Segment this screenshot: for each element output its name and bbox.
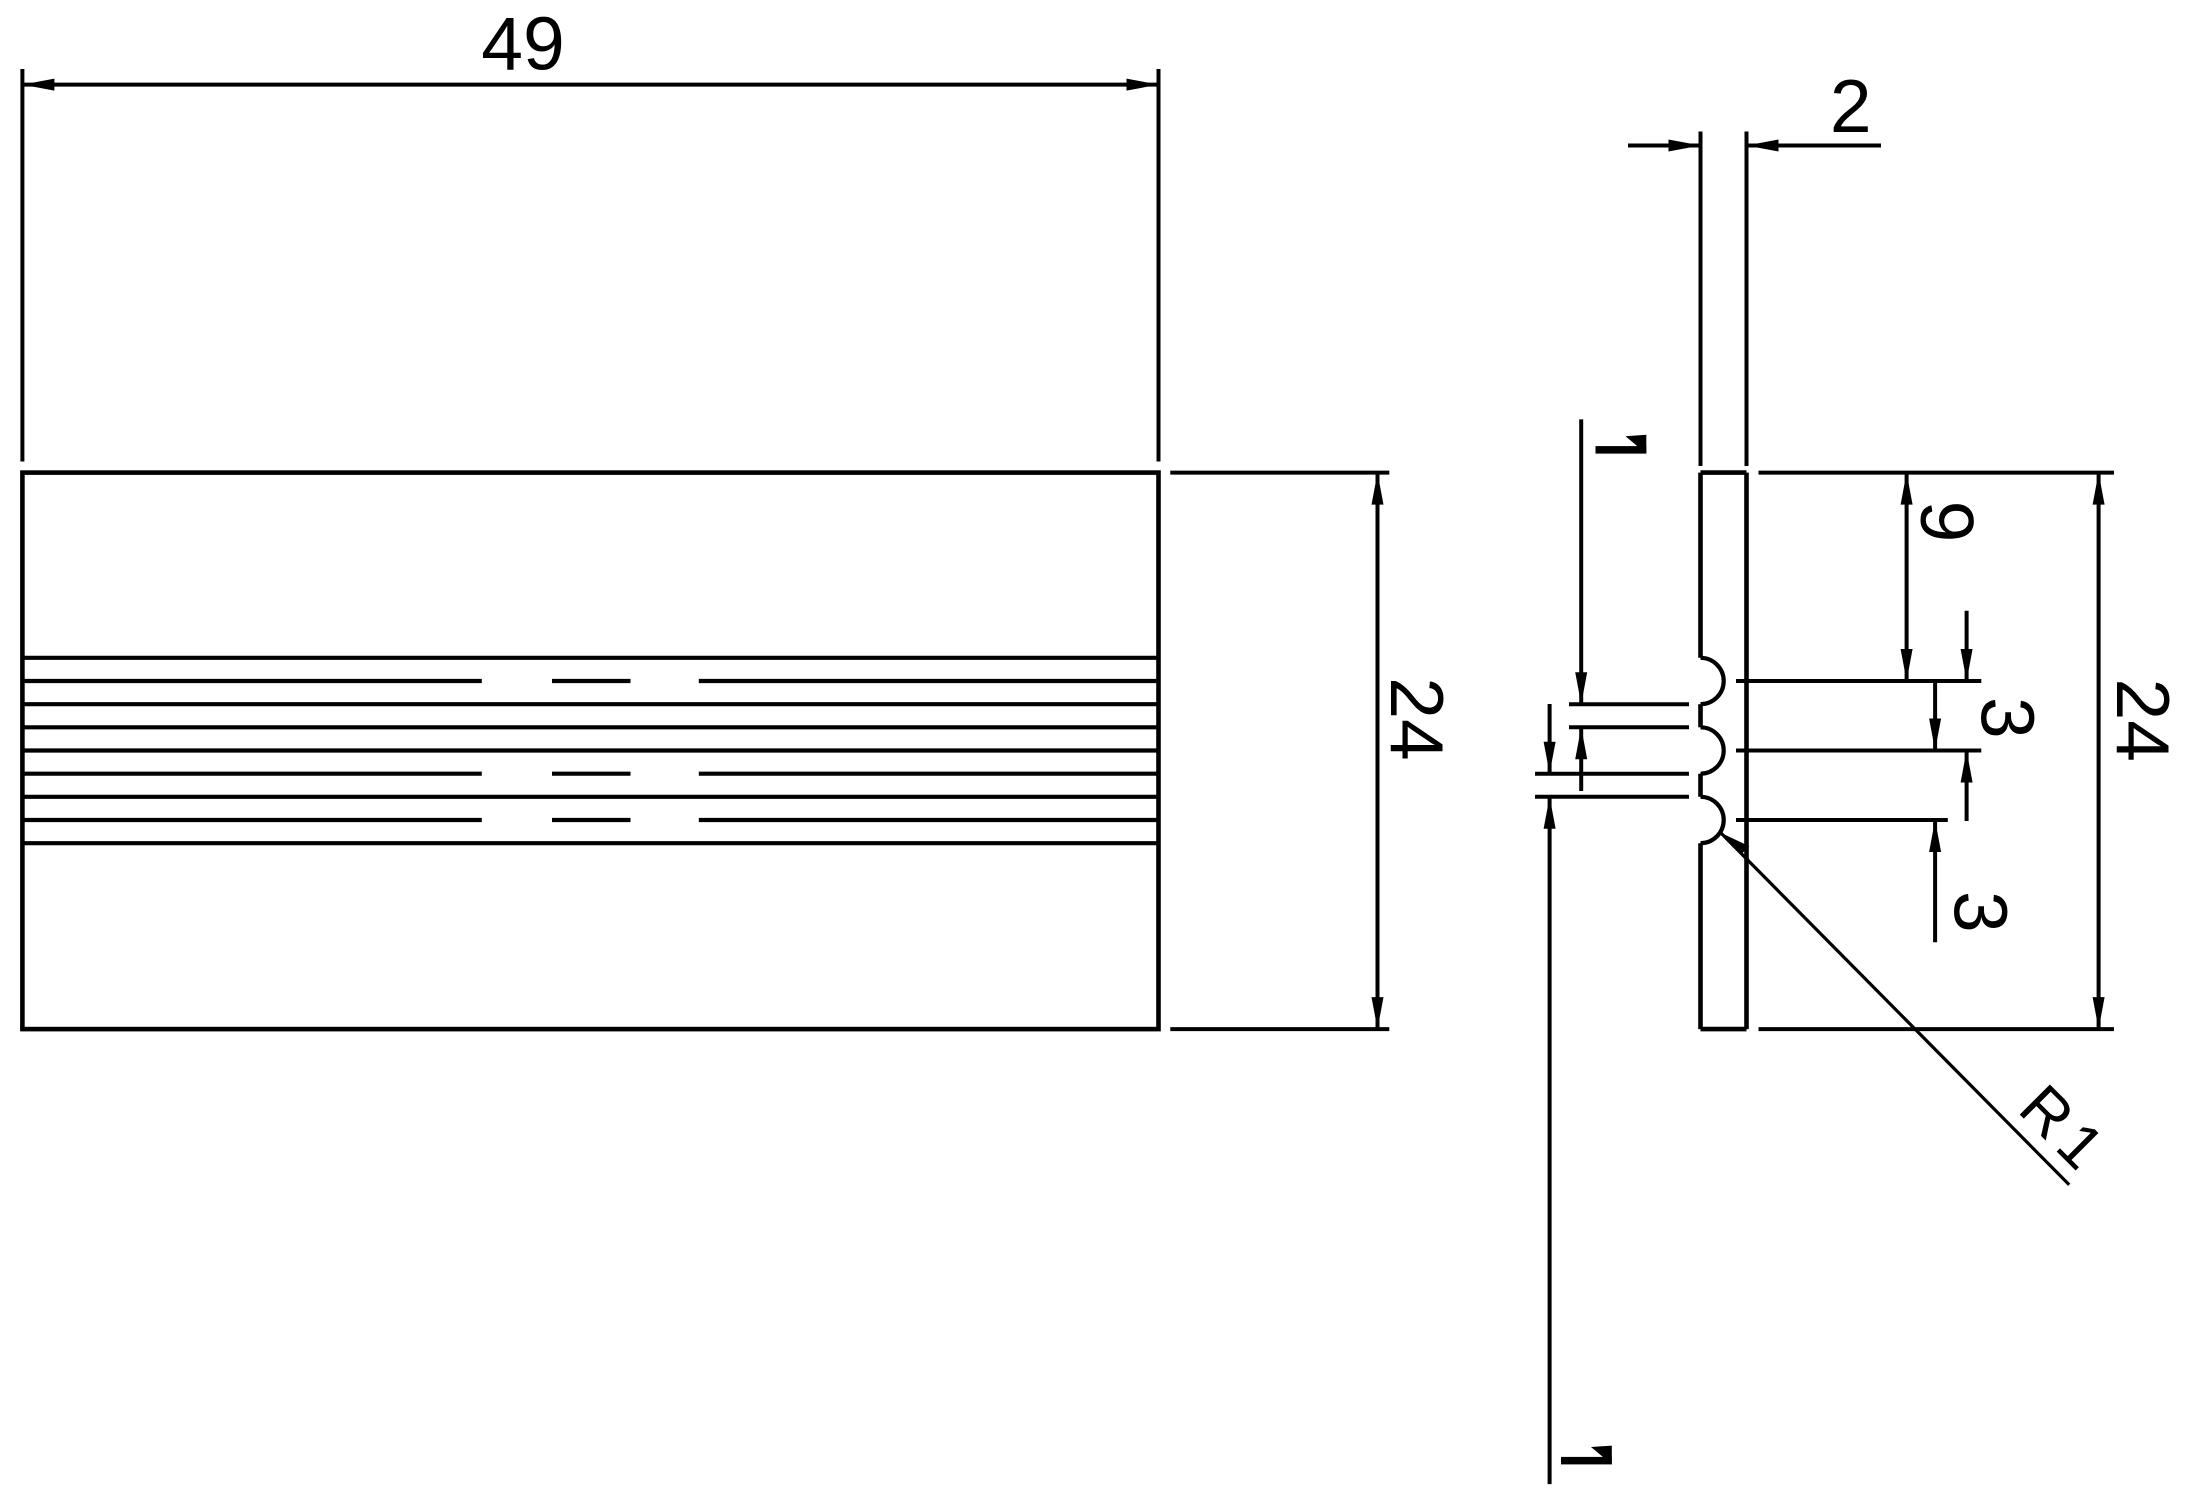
side view left edge segments <box>1698 473 1703 1030</box>
dimension 49: right arrowhead <box>1127 79 1159 91</box>
groove 1 center line (dashed) <box>22 679 1158 683</box>
dimension 3 (lower): outside arrow below <box>1929 820 1941 942</box>
dimension 1 (upper): outside arrow below <box>1575 727 1587 791</box>
groove 2 bottom edge line (dashed) <box>22 772 1158 776</box>
radius leader R1: leader line <box>1721 833 2070 1185</box>
dimension 1 (lower): value label <box>1561 1446 1612 1465</box>
groove 3 bottom edge line <box>22 841 1158 845</box>
dimension 2: dimension line tails <box>1628 144 1881 148</box>
side view outline (2 x 24 plate) <box>1701 473 1747 1030</box>
notch 1 semicircular groove R1 <box>1701 658 1724 704</box>
dimension 3 (upper): value label <box>1966 697 2050 739</box>
groove 3 center line (dashed) <box>22 818 1158 822</box>
groove 2 top edge line <box>22 725 1158 729</box>
dimension 9: bottom arrowhead <box>1901 649 1913 681</box>
notch 2 semicircular groove R1 <box>1701 727 1724 773</box>
dimension 1 (upper): outside arrow above <box>1575 419 1587 704</box>
dimension 24 (side view): top arrowhead <box>2093 473 2105 505</box>
dimension 24 (front view): dimension line <box>1376 473 1380 1030</box>
svg-text:49: 49 <box>481 2 564 86</box>
radius leader R1: value label <box>2006 1072 2122 1188</box>
dimension 1 (upper): value label <box>1596 435 1647 454</box>
dimension 2: right arrowhead <box>1747 140 1779 152</box>
dimension 1 (upper): extension lines <box>1569 704 1689 727</box>
notch center extension line 2 <box>1736 749 1981 753</box>
dimension 24 (front view): bottom arrowhead <box>1372 997 1384 1029</box>
dimension 24 (front view): top arrowhead <box>1372 473 1384 505</box>
svg-text:24: 24 <box>1375 677 1459 760</box>
svg-text:3: 3 <box>1939 891 2023 933</box>
dimension 1 (lower): outside arrow below <box>1544 797 1556 1484</box>
dimension 1 (lower): extension lines <box>1535 774 1689 797</box>
dimension 3 (upper): outside arrow below <box>1961 751 1973 822</box>
notch center extension line 3 <box>1736 818 1948 822</box>
dimension 49: extension lines <box>22 69 1158 462</box>
dimension 24 (front view): value label <box>1375 677 1459 760</box>
dimension 3 (lower): value label <box>1939 891 2023 933</box>
front view outline (49 x 24 plate) <box>22 473 1158 1030</box>
dimension 24 (side view): value label <box>2101 678 2185 761</box>
groove 1 top edge line <box>22 656 1158 660</box>
groove 3 top edge line <box>22 795 1158 799</box>
dimension 24 (side view): dimension line <box>2097 473 2101 1030</box>
dimension 24 (front view): extension lines <box>1170 473 1389 1030</box>
dimension 1 (lower): outside arrow above <box>1544 704 1556 774</box>
radius leader R1: arrowhead <box>1721 833 1750 854</box>
dimension 9: dimension line <box>1905 473 1909 681</box>
dimension 24 (side view): extension lines <box>1759 473 2115 1030</box>
svg-text:3: 3 <box>1966 697 2050 739</box>
dimension 3 (upper): outside arrow above <box>1961 611 1973 681</box>
dimension 2: extension lines <box>1701 132 1747 467</box>
dimension 9: value label <box>1905 501 1989 543</box>
notch 3 semicircular groove R1 <box>1701 797 1724 843</box>
svg-text:9: 9 <box>1905 501 1989 543</box>
dimension 3 (lower): outside arrow above <box>1929 681 1941 751</box>
dimension 9: top arrowhead <box>1901 473 1913 505</box>
dimension 2: left arrowhead <box>1669 140 1701 152</box>
svg-text:2: 2 <box>1830 64 1872 148</box>
dimension 24 (side view): bottom arrowhead <box>2093 997 2105 1029</box>
groove 1 bottom edge line <box>22 702 1158 706</box>
notch center extension line 1 <box>1736 679 1981 683</box>
dimension 49: left arrowhead <box>22 79 54 91</box>
svg-text:24: 24 <box>2101 678 2185 761</box>
groove 2 center line <box>22 748 1158 752</box>
dimension 49: dimension line <box>22 83 1158 87</box>
